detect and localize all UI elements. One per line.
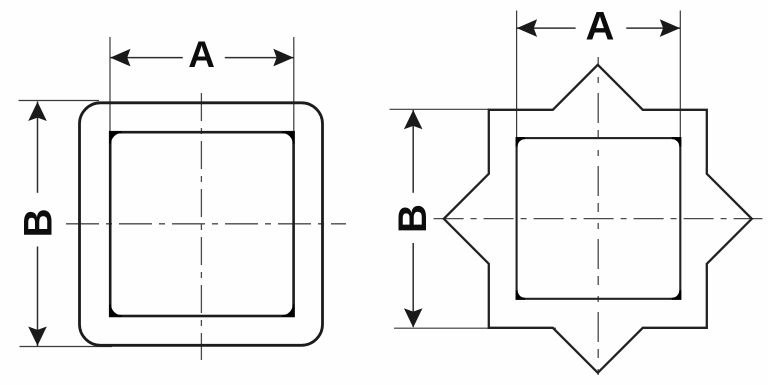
inner square bore (right figure) xyxy=(517,138,681,299)
arrowhead A-left (right figure) xyxy=(517,19,537,37)
corner fillet fill top-left (left figure) xyxy=(110,132,122,144)
vertical center line (right figure) xyxy=(597,57,599,381)
vertical center line (left figure) xyxy=(200,93,202,360)
corner fillet fill bottom-left (right figure) xyxy=(517,290,526,299)
svg-text:A: A xyxy=(586,4,615,48)
extension line A-right (right figure) xyxy=(679,11,681,139)
corner fillet fill bottom-left (left figure) xyxy=(110,305,122,317)
corner fillet fill top-left (right figure) xyxy=(517,138,526,147)
8-point star outer profile (right figure) xyxy=(444,65,752,373)
extension line B-top (right figure) xyxy=(390,108,491,110)
extension line B-bottom (left figure) xyxy=(20,346,113,348)
corner fillet fill bottom-right (right figure) xyxy=(672,290,681,299)
arrowhead B-bottom (left figure) xyxy=(28,327,47,346)
svg-text:B: B xyxy=(16,208,60,237)
horizontal center line (right figure) xyxy=(434,218,763,220)
dimension line B (right figure) xyxy=(412,110,414,193)
dimension line B (left figure) xyxy=(37,102,39,193)
corner fillet fill bottom-right (left figure) xyxy=(282,305,294,317)
horizontal center line (left figure) xyxy=(66,223,346,225)
dimension line A (left figure) xyxy=(110,57,183,59)
corner fillet fill top-right (left figure) xyxy=(282,132,294,144)
extension line A-right (left figure) xyxy=(293,37,295,132)
arrowhead B-top (left figure) xyxy=(28,102,47,121)
extension line A-left (left figure) xyxy=(109,37,111,132)
extension line B-bottom (right figure) xyxy=(394,327,556,329)
arrowhead A-right (left figure) xyxy=(273,49,293,67)
inner square bore (left figure) xyxy=(110,132,293,316)
svg-text:A: A xyxy=(188,34,215,75)
corner fillet fill top-right (right figure) xyxy=(672,138,681,147)
extension line A-left (right figure) xyxy=(516,11,518,139)
dimension line A (right figure) xyxy=(517,27,576,29)
arrowhead B-top (right figure) xyxy=(404,110,423,129)
arrowhead A-right (right figure) xyxy=(660,19,680,37)
outer square profile with rounded corners (left figure) xyxy=(80,103,323,345)
svg-text:B: B xyxy=(391,204,435,233)
extension line B-top (left figure) xyxy=(19,100,100,102)
arrowhead A-left (left figure) xyxy=(110,49,130,67)
arrowhead B-bottom (right figure) xyxy=(404,308,423,327)
